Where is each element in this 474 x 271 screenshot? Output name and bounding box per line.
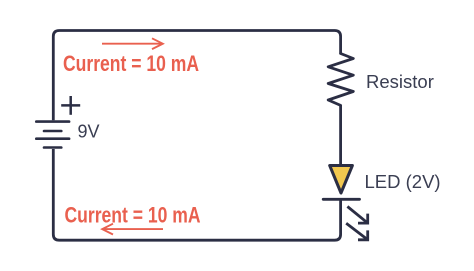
svg-text:9V: 9V: [78, 122, 100, 142]
LED D1 triangle (anode): [330, 166, 353, 194]
current direction arrow bottom (leftward): [102, 224, 163, 235]
battery plus sign: [61, 96, 80, 115]
LED D1 cathode bar: [323, 198, 359, 201]
LED emission arrow 2: [346, 223, 368, 240]
LED emission arrow 1: [347, 207, 367, 224]
svg-text:Current = 10 mA: Current = 10 mA: [65, 202, 201, 227]
wire: LED cathode down, across bottom, up to battery negative terminal: [53, 149, 340, 240]
svg-text:Resistor: Resistor: [366, 71, 434, 92]
svg-text:LED (2V): LED (2V): [365, 171, 441, 192]
battery B1 plate 4 (short, negative): [44, 146, 61, 149]
wire: resistor bottom to LED anode: [339, 105, 342, 165]
current direction arrow top (rightward): [102, 38, 163, 49]
wire: battery positive terminal up, across top, down to resistor top: [53, 31, 340, 121]
resistor R (zigzag): [328, 54, 353, 106]
battery B1 plate 3 (long): [36, 137, 69, 140]
battery B1 plate 1 (long, positive): [36, 120, 69, 123]
battery B1 plate 2 (short): [44, 130, 61, 133]
svg-text:Current = 10 mA: Current = 10 mA: [63, 51, 199, 76]
